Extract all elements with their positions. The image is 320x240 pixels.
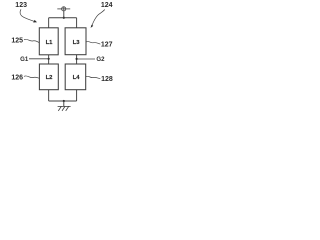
label 127 (86, 41, 113, 48)
svg-text:125: 125 (11, 38, 23, 45)
svg-text:L4: L4 (73, 75, 81, 81)
svg-text:L1: L1 (46, 40, 54, 46)
junction dot top (63, 17, 65, 19)
svg-text:G1: G1 (20, 56, 29, 63)
svg-text:123: 123 (15, 2, 27, 9)
feed terminal (57, 7, 70, 12)
label 126 (11, 75, 39, 82)
svg-text:L2: L2 (46, 75, 54, 81)
wire L2 to bottom bus (48, 90, 50, 101)
wire top bus (49, 17, 77, 19)
wire L4 to bottom bus (76, 90, 78, 101)
svg-text:127: 127 (101, 42, 113, 49)
inductor L4 (65, 64, 86, 90)
svg-text:128: 128 (101, 76, 113, 83)
inductor L1 (39, 28, 58, 55)
ground (58, 106, 71, 111)
inductor L3 (65, 28, 86, 55)
wire L3 to L4 (76, 55, 78, 64)
wire bottom bus to ground (63, 101, 65, 106)
wire feed to top bus (63, 11, 65, 18)
wire bottom bus (49, 100, 77, 102)
label 124 (91, 2, 113, 28)
node G2 (76, 56, 106, 63)
junction dot bottom (63, 100, 65, 102)
wire top bus to L3 (76, 18, 78, 28)
wire top bus to L1 (48, 18, 50, 28)
inductor L2 (39, 64, 58, 90)
wire L1 to L2 (48, 55, 50, 64)
svg-text:124: 124 (101, 2, 113, 9)
svg-text:L3: L3 (73, 40, 81, 46)
node G1 (20, 56, 50, 63)
svg-text:126: 126 (11, 75, 23, 82)
label 125 (11, 38, 39, 45)
svg-text:G2: G2 (96, 56, 105, 63)
label 123 (15, 2, 37, 22)
label 128 (86, 76, 113, 83)
